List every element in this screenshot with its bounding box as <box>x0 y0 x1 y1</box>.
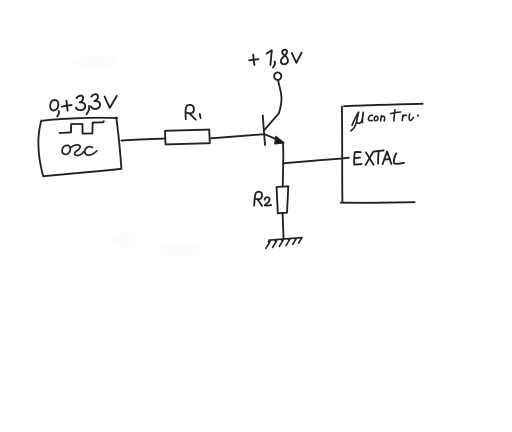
wire R1 to transistor base <box>210 134 265 138</box>
ground <box>266 238 302 249</box>
label µ contr. <box>351 110 418 131</box>
resistor R2 <box>277 186 289 213</box>
pin label EXTAL <box>354 150 404 165</box>
wire OSC to R1 <box>121 139 164 141</box>
resistor R1 <box>165 130 210 145</box>
wire R2 to ground <box>283 213 284 239</box>
wire junction down to R2 <box>282 163 285 186</box>
label OSC (cursive) <box>62 145 97 156</box>
label R1 <box>186 105 201 120</box>
square-wave symbol inside OSC <box>60 121 104 133</box>
transistor Q1 <box>263 113 284 145</box>
label 0, +3,3V <box>50 94 117 116</box>
collector wire up to +1,8V terminal <box>278 80 281 113</box>
microcontroller box <box>341 104 423 203</box>
+1,8V terminal circle <box>274 72 281 80</box>
label R2 <box>254 192 271 206</box>
emitter wire down to junction <box>282 143 284 163</box>
faint scan smudges <box>73 56 200 257</box>
oscillator OSC box <box>38 117 121 176</box>
node junction / wire to EXTAL <box>283 158 349 164</box>
label +1,8V <box>249 50 301 68</box>
